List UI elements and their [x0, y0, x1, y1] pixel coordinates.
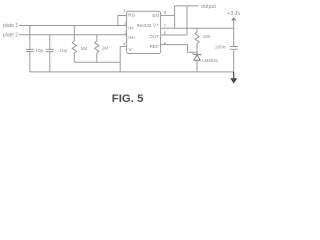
svg-text:1M: 1M — [81, 46, 88, 52]
capacitor C3 plates 100n — [230, 47, 238, 50]
wire RG to IN- — [118, 16, 127, 26]
diode D1 LM4041 zener — [193, 53, 202, 72]
wire ground rail — [30, 71, 234, 73]
resistor R3 body 10k — [195, 32, 199, 44]
svg-text:10p: 10p — [59, 48, 67, 54]
svg-text:output: output — [201, 4, 216, 10]
resistor R1 body 1M — [72, 41, 76, 53]
wire bias bus to V- — [74, 61, 120, 63]
svg-text:plate 1: plate 1 — [3, 23, 18, 29]
power +3.3V symbol — [231, 17, 236, 20]
capacitor C2 plates 10p — [46, 49, 54, 51]
wire V- vertical — [119, 46, 121, 72]
svg-text:10p: 10p — [35, 48, 43, 54]
svg-text:1M: 1M — [102, 46, 109, 52]
resistor R3 lead top — [196, 28, 198, 32]
wire output top — [175, 5, 199, 7]
resistor R1 lead bottom — [73, 53, 75, 62]
capacitor C2 lead top — [49, 35, 51, 50]
capacitor C1 lead bottom — [29, 52, 31, 72]
svg-text:IN+: IN+ — [128, 35, 136, 40]
resistor R3 lead bottom — [196, 44, 198, 55]
svg-text:OUT: OUT — [149, 34, 159, 39]
wire OUT riser — [186, 6, 188, 35]
op-amp U1 INA332 body — [127, 11, 161, 53]
svg-text:V+: V+ — [153, 22, 159, 27]
svg-text:INA332: INA332 — [137, 23, 152, 28]
resistor R1 lead top — [73, 26, 75, 42]
capacitor C2 lead bottom — [49, 52, 51, 72]
svg-text:10k: 10k — [203, 34, 211, 40]
svg-text:REF: REF — [150, 44, 159, 49]
wire pin4 stub — [120, 45, 126, 47]
resistor R2 body 1M — [95, 41, 99, 53]
wire pin6 OUT stub — [161, 34, 187, 36]
capacitor C1 lead top — [29, 26, 31, 50]
resistor R2 lead top — [96, 35, 98, 41]
capacitor C1 plates 10p — [26, 49, 34, 51]
svg-text:V-: V- — [129, 47, 134, 52]
svg-text:EN: EN — [152, 13, 158, 18]
svg-text:IN-: IN- — [128, 25, 135, 30]
wire +3.3V drop — [233, 21, 235, 47]
svg-text:plate 2: plate 2 — [3, 32, 18, 38]
wire pin8 EN stub — [161, 14, 175, 16]
pin numbers — [123, 8, 167, 46]
wire V+ rail — [161, 27, 234, 29]
wire pin5 REF path — [161, 45, 197, 53]
capacitor C3 lead bottom — [233, 49, 235, 72]
wire plate2 rail — [19, 34, 127, 36]
svg-text:LM4041: LM4041 — [202, 58, 219, 63]
svg-text:100n: 100n — [215, 45, 226, 51]
ground arrow — [230, 72, 237, 84]
wire EN riser — [174, 6, 176, 28]
resistor R2 lead bottom — [96, 53, 98, 62]
U1 inner pin labels — [128, 13, 159, 52]
svg-text:FIG. 5: FIG. 5 — [112, 93, 144, 105]
svg-text:RG: RG — [128, 13, 135, 18]
svg-text:+3.3V: +3.3V — [227, 11, 240, 17]
wire plate1 rail — [19, 25, 127, 27]
